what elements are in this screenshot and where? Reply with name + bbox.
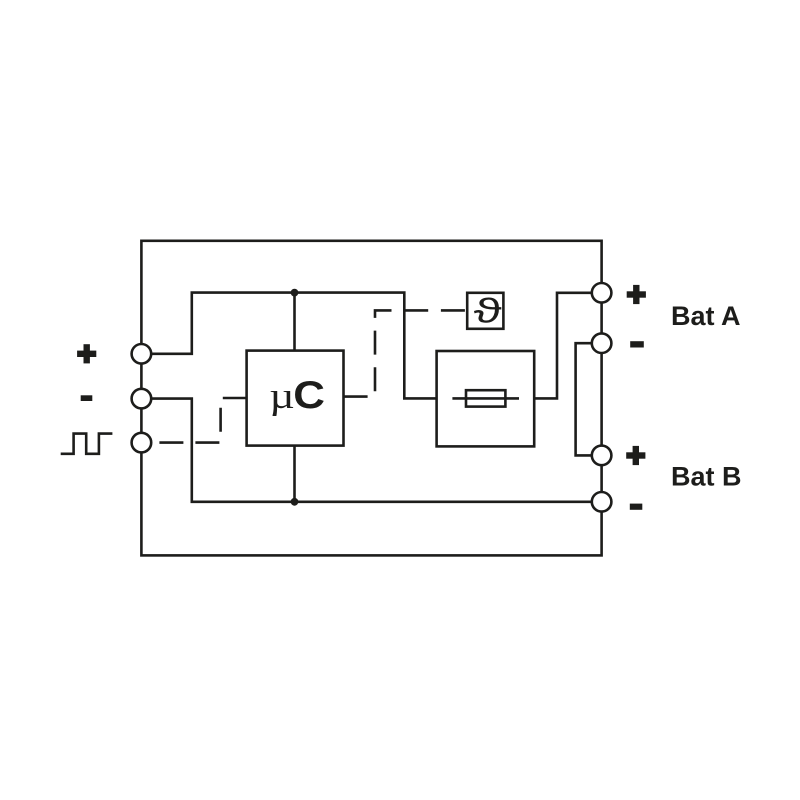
- svg-text:C: C: [293, 372, 325, 416]
- svg-text:Bat A: Bat A: [671, 301, 741, 331]
- svg-text:ϑ: ϑ: [474, 293, 502, 331]
- svg-text:Bat B: Bat B: [671, 462, 742, 492]
- svg-text:µ: µ: [269, 376, 294, 417]
